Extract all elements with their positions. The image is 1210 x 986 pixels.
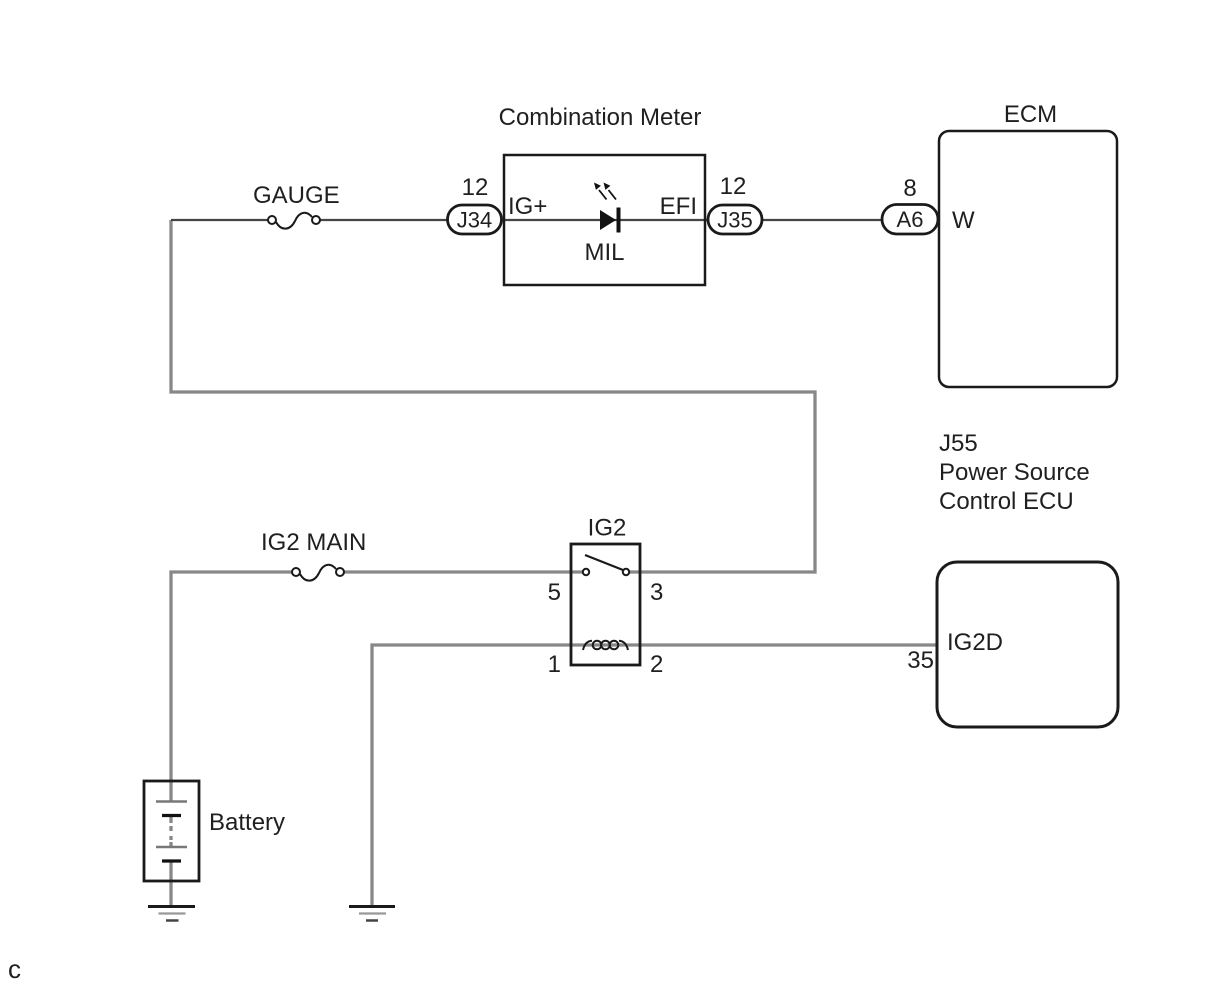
svg-text:2: 2 [650, 651, 663, 678]
svg-text:12: 12 [462, 174, 489, 201]
svg-text:IG2: IG2 [588, 515, 627, 542]
svg-text:3: 3 [650, 579, 663, 606]
svg-text:c: c [8, 954, 21, 984]
svg-text:Battery: Battery [209, 809, 285, 836]
svg-text:Control ECU: Control ECU [939, 488, 1074, 515]
svg-text:8: 8 [903, 175, 916, 202]
svg-text:J55: J55 [939, 430, 978, 457]
svg-text:GAUGE: GAUGE [253, 182, 340, 209]
svg-text:W: W [952, 207, 975, 234]
svg-text:Power Source: Power Source [939, 459, 1090, 486]
svg-text:IG2 MAIN: IG2 MAIN [261, 529, 366, 556]
svg-text:1: 1 [548, 651, 561, 678]
svg-text:12: 12 [720, 173, 747, 200]
svg-text:MIL: MIL [584, 239, 624, 266]
svg-text:ECM: ECM [1004, 101, 1057, 128]
svg-text:J35: J35 [717, 208, 752, 233]
svg-text:Combination Meter: Combination Meter [499, 104, 702, 131]
svg-text:35: 35 [907, 647, 934, 674]
svg-text:IG+: IG+ [508, 193, 547, 220]
svg-text:5: 5 [548, 579, 561, 606]
svg-text:IG2D: IG2D [947, 629, 1003, 656]
svg-text:J34: J34 [457, 208, 492, 233]
svg-text:EFI: EFI [660, 193, 697, 220]
svg-text:A6: A6 [897, 207, 924, 232]
